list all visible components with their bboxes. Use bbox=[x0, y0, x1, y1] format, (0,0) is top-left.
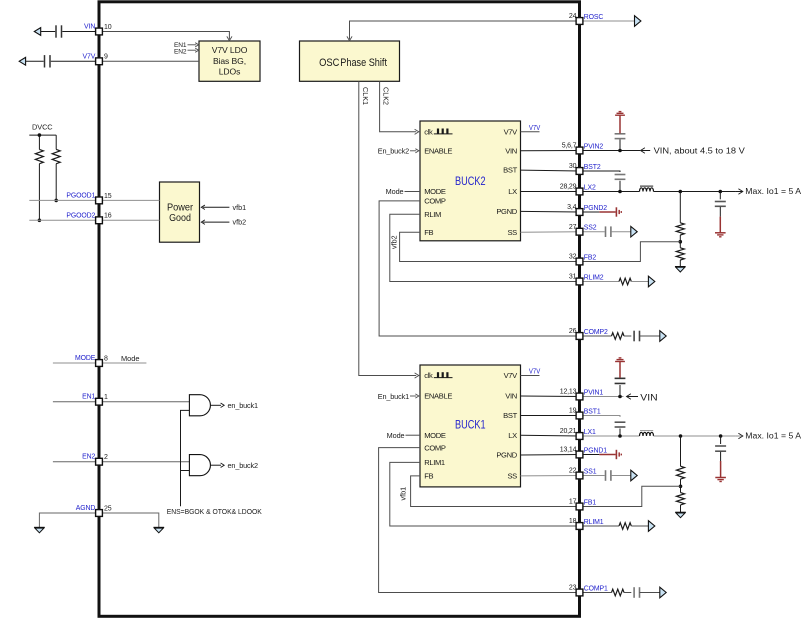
svg-text:28,29: 28,29 bbox=[560, 184, 577, 191]
svg-text:LDOs: LDOs bbox=[219, 67, 241, 77]
svg-text:en_buck1: en_buck1 bbox=[228, 401, 259, 410]
svg-text:LX: LX bbox=[508, 431, 517, 440]
svg-text:COMP: COMP bbox=[424, 443, 446, 452]
svg-text:BST2: BST2 bbox=[584, 164, 601, 171]
svg-text:15: 15 bbox=[104, 193, 112, 200]
svg-text:En_buck1: En_buck1 bbox=[378, 392, 409, 401]
svg-text:ROSC: ROSC bbox=[584, 14, 604, 21]
svg-text:VIN: VIN bbox=[505, 146, 517, 155]
svg-text:vfb2: vfb2 bbox=[389, 235, 398, 249]
svg-text:5,6,7: 5,6,7 bbox=[562, 143, 577, 150]
svg-text:vfb2: vfb2 bbox=[233, 218, 247, 227]
svg-text:PGND1: PGND1 bbox=[584, 448, 607, 455]
svg-text:PGND2: PGND2 bbox=[584, 205, 607, 212]
svg-text:BST1: BST1 bbox=[584, 409, 601, 416]
svg-text:BUCK1: BUCK1 bbox=[455, 418, 486, 432]
svg-text:SS1: SS1 bbox=[584, 469, 597, 476]
svg-text:COMP: COMP bbox=[424, 197, 446, 206]
svg-text:V7V: V7V bbox=[504, 371, 519, 380]
svg-text:MODE: MODE bbox=[75, 355, 96, 362]
svg-text:LX1: LX1 bbox=[584, 429, 596, 436]
svg-text:CLK1: CLK1 bbox=[361, 87, 370, 105]
svg-text:22: 22 bbox=[569, 468, 577, 475]
svg-text:MODE: MODE bbox=[424, 187, 446, 196]
svg-text:Max. Io1 = 5 A: Max. Io1 = 5 A bbox=[745, 187, 801, 196]
svg-text:19: 19 bbox=[569, 408, 577, 415]
svg-text:RLIM2: RLIM2 bbox=[584, 275, 604, 282]
svg-text:vfb1: vfb1 bbox=[233, 203, 247, 212]
svg-text:en_buck2: en_buck2 bbox=[228, 461, 259, 470]
svg-text:FB: FB bbox=[424, 228, 433, 237]
svg-text:BST: BST bbox=[503, 411, 517, 420]
svg-text:RLIM1: RLIM1 bbox=[584, 519, 604, 526]
svg-text:CLK2: CLK2 bbox=[382, 87, 391, 105]
svg-text:RLIM1: RLIM1 bbox=[424, 458, 445, 467]
svg-text:EN1: EN1 bbox=[82, 394, 95, 401]
svg-text:Bias BG,: Bias BG, bbox=[213, 56, 246, 66]
svg-text:PVIN2: PVIN2 bbox=[584, 144, 604, 151]
svg-text:VIN, about 4.5 to 18 V: VIN, about 4.5 to 18 V bbox=[654, 146, 746, 155]
svg-text:DVCC: DVCC bbox=[32, 123, 53, 132]
svg-text:V7V: V7V bbox=[504, 127, 519, 136]
svg-text:25: 25 bbox=[104, 505, 112, 512]
svg-text:20,21: 20,21 bbox=[560, 428, 577, 435]
svg-text:12,13: 12,13 bbox=[560, 389, 577, 396]
svg-text:PGOOD1: PGOOD1 bbox=[66, 192, 95, 199]
svg-text:31: 31 bbox=[569, 274, 577, 281]
svg-text:SS: SS bbox=[507, 472, 517, 481]
svg-text:V7V LDO: V7V LDO bbox=[212, 45, 248, 55]
svg-text:clk: clk bbox=[424, 371, 433, 380]
svg-text:Max. Io1 = 5 A: Max. Io1 = 5 A bbox=[745, 431, 801, 440]
svg-text:16: 16 bbox=[104, 213, 112, 220]
svg-text:1: 1 bbox=[104, 394, 108, 401]
svg-text:Power: Power bbox=[167, 203, 194, 214]
svg-text:24: 24 bbox=[569, 13, 577, 20]
svg-text:COMP1: COMP1 bbox=[584, 586, 608, 593]
svg-text:EN2: EN2 bbox=[174, 49, 187, 56]
svg-text:V7V: V7V bbox=[529, 125, 541, 132]
svg-text:10: 10 bbox=[104, 24, 112, 31]
svg-text:En_buck2: En_buck2 bbox=[378, 147, 409, 156]
svg-text:26: 26 bbox=[569, 328, 577, 335]
svg-text:27: 27 bbox=[569, 224, 577, 231]
svg-text:BST: BST bbox=[503, 166, 517, 175]
svg-text:Phase Shift: Phase Shift bbox=[340, 57, 387, 69]
svg-text:SS: SS bbox=[507, 228, 517, 237]
svg-text:PGOOD2: PGOOD2 bbox=[66, 212, 95, 219]
svg-text:17: 17 bbox=[569, 499, 577, 506]
svg-text:V7V: V7V bbox=[83, 53, 96, 60]
svg-text:ENS=BGOK & OTOK& LDOOK: ENS=BGOK & OTOK& LDOOK bbox=[167, 507, 262, 516]
svg-text:RLIM: RLIM bbox=[424, 210, 441, 219]
svg-text:LX: LX bbox=[508, 187, 517, 196]
svg-text:VIN: VIN bbox=[84, 24, 95, 31]
svg-text:V7V: V7V bbox=[529, 369, 541, 376]
svg-text:30: 30 bbox=[569, 163, 577, 170]
svg-text:13,14: 13,14 bbox=[560, 447, 577, 454]
svg-text:Good: Good bbox=[169, 213, 191, 224]
svg-text:AGND: AGND bbox=[76, 505, 96, 512]
svg-text:FB: FB bbox=[424, 472, 433, 481]
svg-text:BUCK2: BUCK2 bbox=[455, 174, 486, 188]
svg-text:SS2: SS2 bbox=[584, 225, 597, 232]
svg-text:vfb1: vfb1 bbox=[399, 487, 408, 501]
svg-text:ENABLE: ENABLE bbox=[424, 146, 452, 155]
svg-text:EN2: EN2 bbox=[82, 454, 95, 461]
svg-text:8: 8 bbox=[104, 355, 108, 362]
svg-text:32: 32 bbox=[569, 254, 577, 261]
svg-text:ENABLE: ENABLE bbox=[424, 392, 452, 401]
svg-text:FB2: FB2 bbox=[584, 255, 597, 262]
svg-text:MODE: MODE bbox=[424, 431, 446, 440]
svg-text:PGND: PGND bbox=[496, 207, 517, 216]
svg-text:clk: clk bbox=[424, 127, 433, 136]
svg-text:9: 9 bbox=[104, 54, 108, 61]
svg-text:23: 23 bbox=[569, 585, 577, 592]
svg-text:PGND: PGND bbox=[496, 451, 517, 460]
svg-text:VIN: VIN bbox=[505, 392, 517, 401]
svg-text:2: 2 bbox=[104, 454, 108, 461]
svg-text:COMP2: COMP2 bbox=[584, 329, 608, 336]
svg-text:3,4: 3,4 bbox=[567, 204, 576, 211]
svg-text:FB1: FB1 bbox=[584, 500, 597, 507]
svg-text:LX2: LX2 bbox=[584, 185, 596, 192]
svg-text:Mode: Mode bbox=[121, 354, 140, 363]
svg-text:Mode: Mode bbox=[386, 187, 404, 196]
svg-text:18: 18 bbox=[569, 518, 577, 525]
svg-text:PVIN1: PVIN1 bbox=[584, 390, 604, 397]
svg-text:OSC: OSC bbox=[319, 57, 339, 69]
svg-text:Mode: Mode bbox=[387, 431, 405, 440]
svg-text:VIN: VIN bbox=[640, 392, 657, 402]
